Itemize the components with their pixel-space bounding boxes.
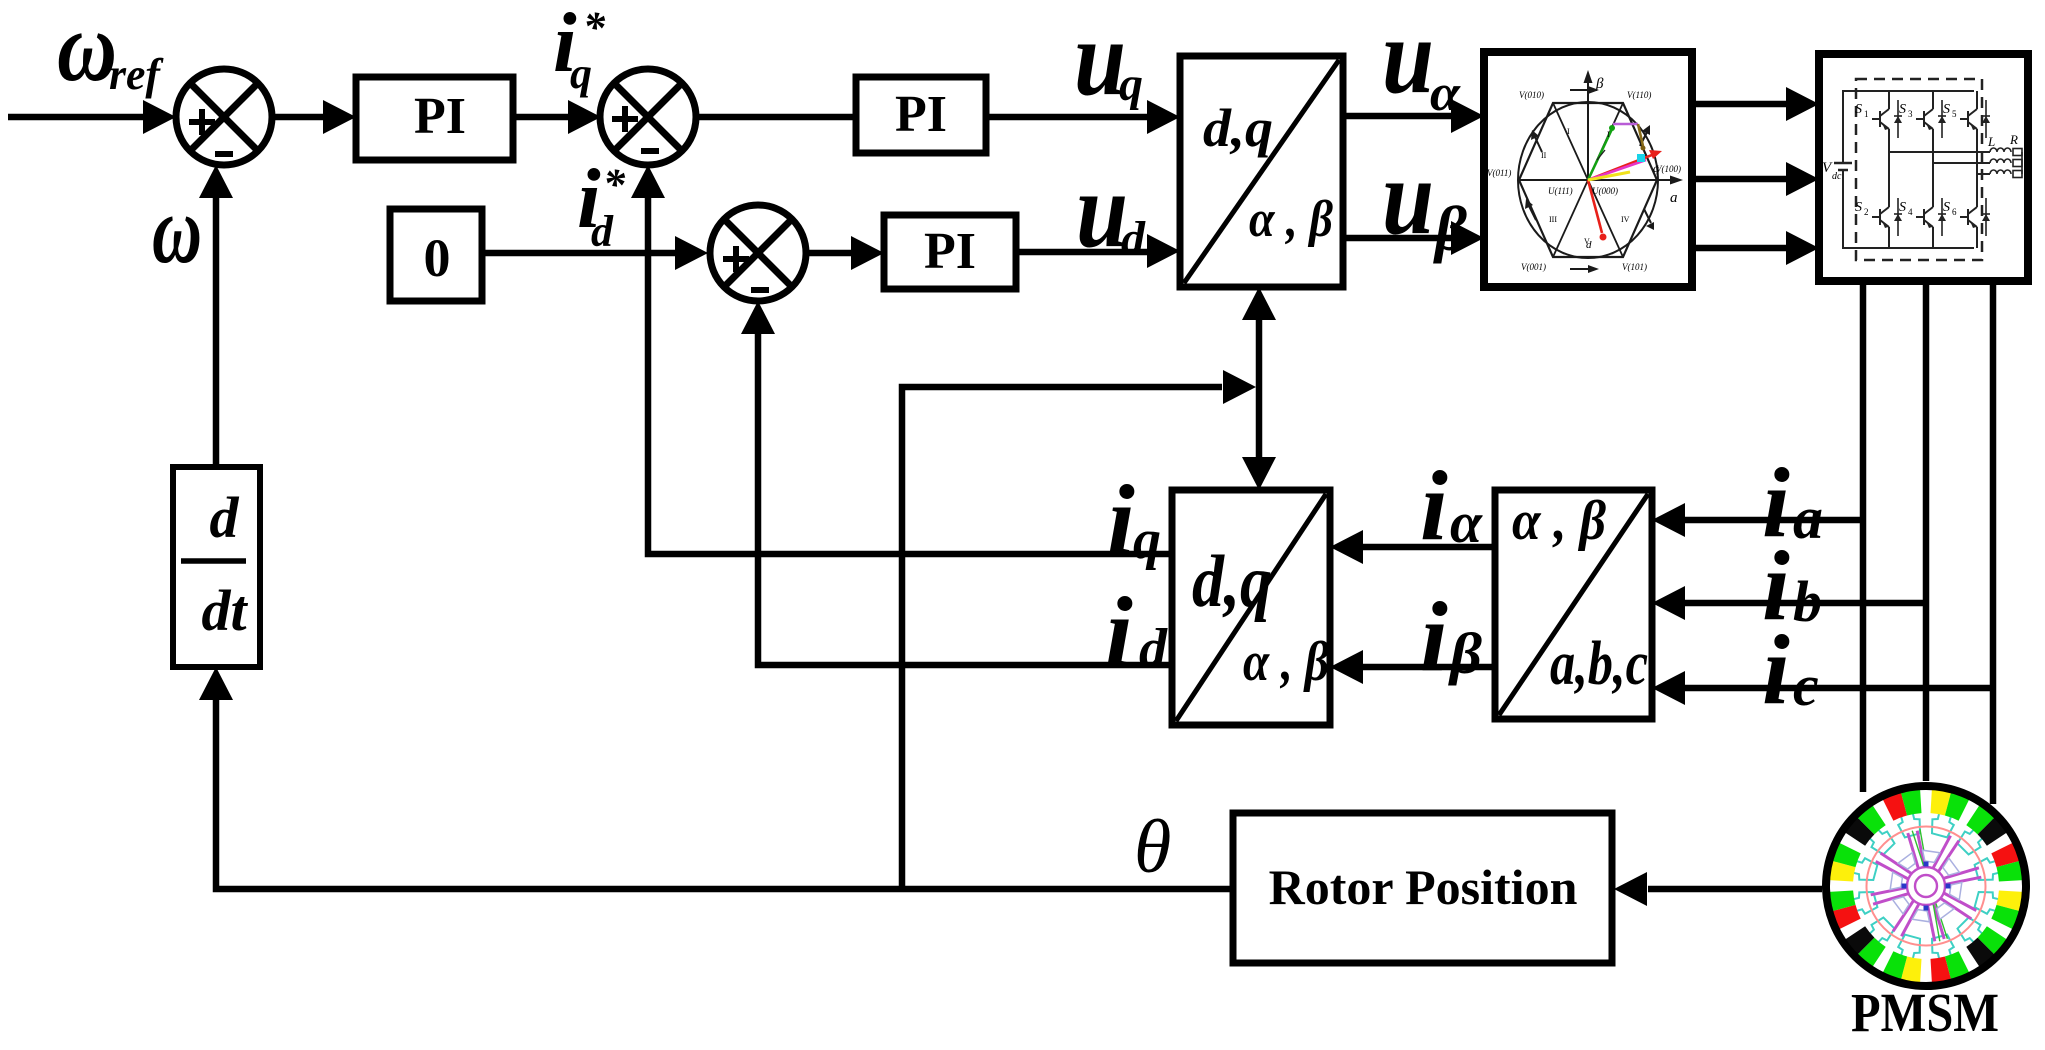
arrowhead into J1 [143,100,176,134]
block svpwm SVPWM hexagon [1484,52,1692,287]
svg-text:i: i [1420,450,1448,561]
arrowhead i_c into clarke [1652,671,1685,705]
arrowhead i_d into J3 [741,301,775,334]
svg-text:S: S [1943,102,1950,117]
J2 minus sign [641,148,659,154]
inverter dc bus [1843,91,1974,248]
motor magnet pole [1857,938,1885,967]
svg-text:θ: θ [1134,805,1171,889]
J3 minus sign [751,287,769,293]
svpwm rotation arrow lower-left [1529,206,1536,220]
svg-text:*: * [603,160,626,209]
svpwm sector diagonal 2 [1553,103,1623,257]
block dq to alphabeta voltage transform U1 [1180,56,1343,287]
svg-text:q: q [1133,509,1161,571]
svg-text:α , β: α , β [1249,191,1333,248]
block rotor position [1233,813,1612,963]
svpwm green vector [1588,129,1612,180]
svg-text:d: d [1139,618,1168,680]
svg-text:6: 6 [1952,207,1957,217]
svg-text:q: q [570,49,592,98]
motor stator slot [1958,918,1997,957]
svg-text:α , β: α , β [1243,631,1329,693]
arrowhead into svpwm u_alpha [1451,99,1484,133]
svg-text:dc: dc [1832,171,1842,182]
svg-text:1: 1 [1864,109,1869,119]
svpwm cyan marker [1637,154,1645,162]
arrowhead into inverter 1 [1786,87,1819,121]
motor magnet pole [1978,926,2007,954]
svg-text:α: α [1430,65,1461,122]
arrowhead i_a into clarke [1652,503,1685,537]
wire i_beta [1360,664,1495,671]
svg-text:R: R [2009,132,2018,147]
svpwm inscribed circle [1518,102,1658,258]
label i_q [1107,464,1161,575]
motor magnet pole [1832,905,1860,929]
inverter battery Vdc [1834,162,1852,165]
J3 plus sign [723,246,749,272]
arrowhead d/dt out into J1 [199,165,233,198]
svg-text:U(111): U(111) [1548,186,1573,196]
svg-text:3: 3 [1908,109,1913,119]
svg-text:S: S [1855,102,1862,117]
motor stator slot [1958,815,1997,854]
wire omega_ref input [8,114,146,121]
wire J3 to PI3 [806,250,854,257]
svg-text:PI: PI [895,86,947,143]
svg-text:V(011): V(011) [1487,168,1511,178]
svg-text:i: i [1420,581,1448,692]
svpwm violet top segment [1613,123,1638,126]
motor stator slot [1895,935,1920,979]
svg-text:I: I [1567,127,1570,136]
label i_q star [553,0,606,98]
motor magnet pole [1991,843,2019,867]
motor stator slot [1975,855,2019,880]
inverter phase outputs [1889,151,1990,153]
arrowhead into d/dt [199,667,233,700]
label i_beta [1420,581,1482,692]
svg-text:I: I [1607,130,1610,139]
svg-text:a: a [1793,485,1823,551]
motor stator slot [1932,794,1957,838]
block PI1 [356,77,513,160]
svg-text:S: S [1943,200,1950,215]
svpwm rotation arrow upper-right [1640,132,1647,146]
svpwm q-axis red vector [1588,155,1652,180]
label i_b [1762,530,1822,641]
svg-text:PMSM: PMSM [1851,982,1999,1043]
block current park transform dq [1172,490,1330,725]
svg-text:*: * [583,3,606,52]
motor magnet pole [1966,805,1994,834]
svpwm alpha axis [1519,179,1674,181]
motor magnet pole [1883,792,1907,820]
wire PI1 to J2 [513,114,570,121]
svpwm rotation arrow upper-left [1535,137,1542,152]
svg-text:V(101): V(101) [1622,262,1647,272]
arrowhead into J3 [675,236,708,270]
J1 plus sign [189,109,215,135]
motor stator slot [1895,794,1920,838]
svpwm magenta flux vector [1588,160,1646,180]
svg-text:PI: PI [924,223,976,280]
wire i_c tap [1682,685,1996,692]
svg-text:2: 2 [1864,207,1869,217]
wire 0 to J3 [482,250,678,257]
wire i_alpha [1360,544,1495,551]
svg-text:4: 4 [1908,207,1913,217]
wire i_b tap [1682,600,1929,607]
motor magnet pole [1997,891,2023,912]
svpwm rotation arrow top [1570,89,1591,91]
svg-text:U(000): U(000) [1592,186,1618,196]
label u_q [1074,0,1143,118]
arrowhead into rotor position [1614,872,1647,906]
wire J1 to PI1 [272,114,326,121]
motor magnet pole [1945,951,1969,979]
label i_d [1105,576,1168,687]
svpwm yellow segment [1588,172,1630,180]
svg-text:ref: ref [109,50,164,99]
motor stator slot [1975,892,2019,917]
label i_d star [577,152,626,256]
svg-text:V(001): V(001) [1521,262,1546,272]
arrowhead into J2 [568,100,601,134]
svg-text:0: 0 [424,228,451,288]
arrowhead theta up into voltage dq block [1242,287,1276,320]
svpwm beta axis [1587,80,1589,180]
inverter IGBT S6 [1960,198,1977,236]
motor rotor ring [1877,837,1975,935]
arrowhead into dq block u_q [1147,100,1180,134]
arrowhead into PI1 [323,100,356,134]
label omega_ref [57,0,164,102]
wire inverter phase b down [1923,281,1930,781]
svg-text:V(010): V(010) [1519,90,1544,100]
inverter IGBT S3 [1916,100,1933,138]
wire PMSM to rotor position [1648,886,1822,893]
svg-text:d: d [1121,212,1146,265]
svpwm rotation arrow lower-right [1644,209,1651,223]
motor magnet pole [1931,789,1952,815]
svg-text:PI: PI [414,88,466,145]
motor stator slot [1834,855,1878,880]
arrowhead i_q into J2 [631,165,665,198]
wire i_a tap [1682,517,1866,524]
wire PI2 to dq block u_q [986,114,1150,121]
svg-text:d: d [591,207,614,256]
inverter IGBT S2 [1872,198,1889,236]
svg-text:i: i [1105,576,1133,687]
svg-text:III: III [1549,215,1557,224]
wire i_d feedback [758,332,1172,665]
svg-text:α , β: α , β [1512,490,1606,552]
motor outer ring [1826,786,2026,986]
arrowhead into inverter 3 [1786,231,1819,265]
svg-text:a,b,c: a,b,c [1550,630,1648,698]
block PI2 [856,77,986,153]
wire PI3 to dq block u_d [1016,249,1150,256]
svpwm sector diagonal 1 [1553,103,1623,257]
svg-text:ω: ω [152,176,202,284]
summing junction J2 [600,69,696,165]
wire theta feedback to d/dt [216,698,1233,889]
motor magnet pole [1901,957,1922,983]
svpwm dark gold segment [1638,124,1643,146]
svg-text:q: q [1119,58,1143,111]
label u_beta [1382,138,1467,264]
svpwm rotation arrow bottom [1570,268,1591,270]
label i_alpha [1420,450,1483,561]
arrowhead into svpwm u_beta [1451,221,1484,255]
wire d/dt to J1 [213,196,220,467]
svg-text:a: a [1670,190,1678,206]
block d/dt [173,467,260,667]
inverter IGBT S1 [1872,100,1889,138]
svg-text:q: q [1653,161,1659,175]
arrowhead i_beta into park [1330,650,1363,684]
arrowhead i_b into clarke [1652,586,1685,620]
wire inverter phase a down [1860,281,1867,792]
svg-text:5: 5 [1952,109,1957,119]
motor stator slot [1834,892,1878,917]
svg-text:V: V [1584,237,1590,246]
arrowhead i_alpha into park [1330,530,1363,564]
inverter dashed enclosure [1856,79,1982,260]
svg-text:b: b [1793,569,1822,634]
svg-text:d,q: d,q [1192,541,1272,623]
wire svpwm to inverter 1 [1692,101,1789,108]
motor green lines [1912,831,1947,939]
svpwm hexagon [1519,103,1657,257]
block PI3 [884,215,1016,289]
svg-text:S: S [1855,200,1862,215]
block zero reference [390,209,482,301]
inverter IGBT S4 [1916,198,1933,236]
svg-text:dt: dt [201,578,248,643]
inverter leg wires [1888,91,1890,100]
svg-text:S: S [1899,102,1906,117]
svpwm d-axis red vector [1588,180,1602,233]
wire theta vertical to transforms [1256,318,1263,460]
wire u_alpha [1343,113,1454,120]
svg-text:L: L [1987,134,1995,149]
svg-text:d,q: d,q [1203,98,1273,158]
wire svpwm to inverter 2 [1692,176,1789,183]
motor stator slot [1855,815,1894,854]
svg-text:S: S [1899,200,1906,215]
motor stator slot [1855,918,1894,957]
svg-text:β: β [1448,621,1482,686]
svg-text:i: i [1107,464,1135,575]
wire u_beta [1343,235,1454,242]
arrowhead theta branch [1223,370,1256,404]
svg-text:c: c [1793,653,1819,718]
label u_d [1076,151,1146,270]
summing junction J3 [710,205,806,301]
label i_a [1762,447,1823,558]
inverter leg wires [1976,91,1978,100]
arrowhead into dq block u_d [1147,234,1180,268]
svg-text:V(110): V(110) [1627,90,1651,100]
svg-text:u: u [1382,138,1434,257]
svg-text:Rotor Position: Rotor Position [1269,859,1578,915]
svg-text:n: n [2025,161,2030,172]
label i_c [1762,614,1819,725]
J1 minus sign [215,151,233,157]
svg-text:II: II [1541,151,1547,160]
arrowhead theta down into current dq block [1242,457,1276,490]
wire i_q feedback [648,196,1172,554]
svg-text:i: i [1762,614,1790,725]
motor stator slot [1932,935,1957,979]
svg-text:u: u [1382,0,1434,116]
inverter IGBT S5 [1960,100,1977,138]
svg-text:β: β [1433,193,1467,264]
wire J2 to PI2 [695,114,856,121]
J2 plus sign [612,106,638,132]
label u_alpha [1382,0,1461,122]
svg-text:IV: IV [1621,215,1630,224]
svg-text:d: d [210,485,240,550]
wire svpwm to inverter 3 [1692,245,1789,252]
wire theta branch up [902,387,1222,889]
motor magnet pole [1845,817,1874,845]
inverter leg wires [1932,91,1934,100]
motor magnet pole [1829,861,1855,882]
svg-text:α: α [1450,490,1483,555]
wire inverter phase c down [1990,281,1997,804]
svg-text:V(100): V(100) [1656,164,1681,174]
arrowhead into PI3 [851,236,884,270]
svpwm small black tick [1597,150,1605,160]
motor hub [1943,858,1959,875]
svg-text:ω: ω [57,0,117,102]
block clarke transform abc [1495,490,1652,719]
arrowhead into inverter 2 [1786,162,1819,196]
summing junction J1 [176,69,272,165]
